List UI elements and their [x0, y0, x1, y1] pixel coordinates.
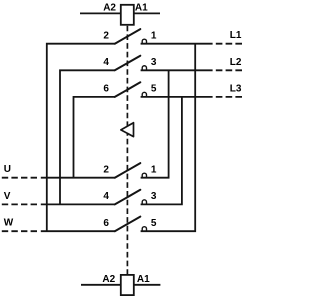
wire W dashed stub: [2, 230, 40, 232]
wire L1 line: [141, 43, 213, 45]
wire L3 dashed stub: [216, 96, 242, 98]
svg-text:6: 6: [103, 84, 109, 95]
wire K1 contact 4 to V: [60, 70, 115, 204]
wire V dashed stub: [2, 203, 40, 205]
wire U dashed stub: [2, 177, 40, 179]
svg-text:1: 1: [151, 30, 157, 41]
svg-text:U: U: [4, 164, 11, 175]
contact K2 pole 3 (6-5): [103, 217, 157, 232]
coil K1 wire right: [134, 12, 160, 14]
mechanical interlock triangle: [121, 123, 134, 137]
wire L1 to K2 contact 5: [141, 44, 196, 232]
wire K1 contact 6 to U: [74, 97, 115, 178]
wire L1 dashed stub: [216, 43, 242, 45]
svg-text:3: 3: [151, 191, 157, 202]
coil K2 (bottom) wire left: [81, 284, 121, 286]
svg-text:3: 3: [151, 57, 157, 68]
svg-text:L3: L3: [230, 83, 242, 94]
svg-text:A2: A2: [103, 3, 116, 14]
svg-text:A2: A2: [102, 274, 115, 285]
svg-text:2: 2: [103, 30, 109, 41]
contact K2 pole 1 (2-1): [103, 163, 157, 178]
svg-text:4: 4: [103, 57, 109, 68]
svg-text:A1: A1: [137, 274, 150, 285]
wire L2 to K2 contact 1: [141, 70, 169, 177]
mechanical linkage (dashed): [126, 26, 128, 274]
contact K1 pole 1 (2-1): [103, 29, 157, 44]
svg-text:L2: L2: [230, 57, 242, 68]
contact K1 pole 3 (6-5): [103, 82, 157, 97]
wire L3 to K2 contact 3: [141, 97, 182, 204]
svg-text:6: 6: [103, 218, 109, 229]
coil K1 (top) wire left: [80, 12, 121, 14]
coil K2: [121, 275, 134, 295]
wire L3 line: [141, 96, 213, 98]
wire U line: [41, 177, 115, 179]
svg-text:W: W: [4, 218, 14, 229]
wire V line: [41, 203, 115, 205]
wire W line: [41, 230, 115, 232]
svg-text:5: 5: [151, 84, 157, 95]
svg-text:2: 2: [103, 164, 109, 175]
svg-text:5: 5: [151, 218, 157, 229]
coil K2 wire right: [134, 284, 161, 286]
wire L2 dashed stub: [216, 69, 242, 71]
wire K1 contact 2 to W: [47, 44, 115, 232]
svg-text:1: 1: [151, 164, 157, 175]
svg-text:L1: L1: [230, 30, 242, 41]
contact K1 pole 2 (4-3): [103, 56, 157, 71]
svg-text:4: 4: [103, 191, 109, 202]
svg-text:A1: A1: [135, 3, 148, 14]
contact K2 pole 2 (4-3): [103, 190, 157, 205]
svg-text:V: V: [4, 191, 11, 202]
wire L2 line: [141, 69, 213, 71]
coil K1: [121, 5, 134, 25]
